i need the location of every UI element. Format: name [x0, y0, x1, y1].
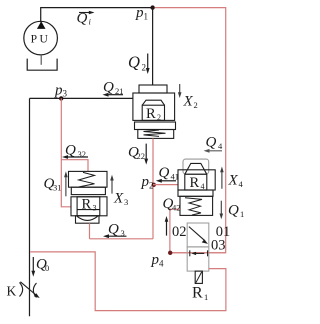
svg-text:X: X [227, 173, 238, 189]
red pipe Q32 branch to R3 spring top [61, 160, 88, 172]
svg-text:R: R [146, 106, 156, 122]
R2 reference label [146, 106, 161, 122]
svg-text:K: K [6, 283, 16, 298]
svg-text:PU: PU [31, 33, 51, 45]
flow label Q21 with left arrow [103, 79, 124, 96]
svg-text:Q: Q [228, 203, 239, 219]
node p2 [140, 174, 156, 191]
displacement label X3 with up arrow [110, 175, 128, 207]
R3 spring zigzag [79, 172, 95, 187]
red pipe R3 bottom to Q3 line [88, 223, 90, 239]
node p4 [150, 251, 172, 269]
wire p1 down to valve R2 [152, 8, 154, 85]
wire left vertical main line [28, 98, 30, 316]
R3 inner box [77, 197, 100, 216]
displacement label X4 with up arrow [220, 167, 243, 190]
svg-text:Q: Q [77, 10, 88, 26]
R2 bar section [135, 122, 176, 130]
orifice R1 [192, 271, 208, 302]
svg-text:2: 2 [194, 100, 198, 110]
R4 spring zigzag [185, 198, 202, 215]
svg-text:22: 22 [137, 151, 146, 161]
red pipe R4 spring port to p4 and through valve to right line [170, 209, 226, 253]
svg-text:4: 4 [238, 179, 243, 189]
valve variable orifice diagonal arrow [189, 227, 208, 244]
flow label Q3 with left arrow [103, 221, 127, 238]
flow label Q4 with left arrow [204, 135, 224, 153]
svg-text:2: 2 [157, 113, 161, 122]
R3 inner divider [77, 209, 100, 211]
svg-text:31: 31 [53, 182, 62, 192]
R2 poppet dome [142, 100, 164, 105]
valve R3 assembly [68, 171, 107, 223]
node p1 [135, 5, 155, 22]
svg-text:1: 1 [144, 12, 149, 22]
flow label Qi with vector arrow [77, 10, 95, 26]
svg-text:Q: Q [206, 135, 217, 151]
svg-text:Q: Q [158, 165, 169, 181]
valve R4 assembly [178, 159, 215, 215]
red pipe bottom loop [30, 252, 226, 311]
R3 spring box [68, 171, 107, 187]
R3 bar section [71, 187, 105, 194]
flow label Q41 with left arrow [156, 165, 179, 183]
svg-text:4: 4 [200, 182, 204, 191]
R3 outer casing [71, 197, 107, 216]
R2 spring box [138, 130, 174, 139]
R3 bottom dome arc [77, 216, 98, 220]
node p3 [54, 82, 68, 100]
valve R2 assembly [133, 85, 176, 138]
valve internal flow arrow [190, 250, 208, 256]
svg-text:Q: Q [108, 221, 119, 237]
R3 bottom cap [75, 216, 99, 223]
flow label Q0 with down arrow [31, 256, 49, 276]
pump PU [24, 21, 58, 55]
red pipe R2 bottom to p2 and down to Q3 line [152, 138, 154, 238]
svg-text:2: 2 [142, 63, 147, 73]
flow label Q32 with left arrow [62, 142, 88, 159]
R4 poppet dome [185, 163, 207, 174]
R4 bar section [178, 190, 213, 196]
svg-text:02: 02 [172, 224, 187, 240]
svg-text:R: R [192, 285, 203, 302]
R2 spring zigzag [144, 130, 166, 136]
red pipe p3 down left branch [61, 98, 71, 206]
R2 outer casing [133, 93, 175, 120]
proportional valve upper position box [187, 223, 209, 247]
throttle K symbol [6, 282, 39, 299]
pump drain stem [40, 54, 42, 65]
wire pump outlet to node p1 [41, 8, 153, 23]
svg-text:X: X [113, 190, 124, 206]
svg-text:3: 3 [124, 197, 128, 207]
R2 pilot cap [139, 85, 167, 93]
flow label Q2 with down arrow [128, 53, 150, 75]
svg-text:0: 0 [45, 263, 49, 273]
svg-text:Q: Q [103, 79, 114, 95]
R4 inner box [185, 174, 207, 190]
svg-text:R: R [189, 175, 199, 191]
tank symbol [27, 59, 57, 71]
proportional valve lower position box [187, 247, 209, 271]
flow label Q22 with down arrow [128, 144, 148, 165]
flow label Q1 with down arrow [219, 201, 244, 220]
red pipe p2 to R4 left port [153, 184, 178, 186]
svg-text:R: R [81, 196, 91, 212]
R4 main box [178, 170, 215, 190]
svg-text:4: 4 [218, 141, 223, 151]
R4 pilot cap (gray) [183, 159, 209, 174]
svg-text:42: 42 [172, 203, 181, 213]
red pipe p1 to right side down (main red loop right) [155, 8, 226, 253]
wire p3 line to valve R2 left port [30, 97, 133, 99]
flow label Q31 with up arrow [43, 171, 67, 196]
svg-text:3: 3 [63, 88, 68, 98]
R2 inner box [142, 105, 164, 120]
svg-text:1: 1 [204, 292, 208, 302]
displacement label X2 with down arrow [178, 84, 198, 110]
svg-text:3: 3 [92, 203, 96, 212]
svg-text:03: 03 [211, 237, 226, 253]
svg-text:Q: Q [128, 53, 140, 72]
flow label Q42 with up arrow [162, 196, 180, 236]
svg-text:2: 2 [149, 181, 154, 191]
R3 reference label [81, 196, 96, 212]
svg-text:1: 1 [240, 209, 244, 219]
red pipe Q3 horizontal to p2 leg [89, 238, 152, 240]
R4 spring box [180, 196, 213, 215]
svg-text:4: 4 [159, 259, 164, 269]
svg-text:X: X [183, 94, 194, 110]
